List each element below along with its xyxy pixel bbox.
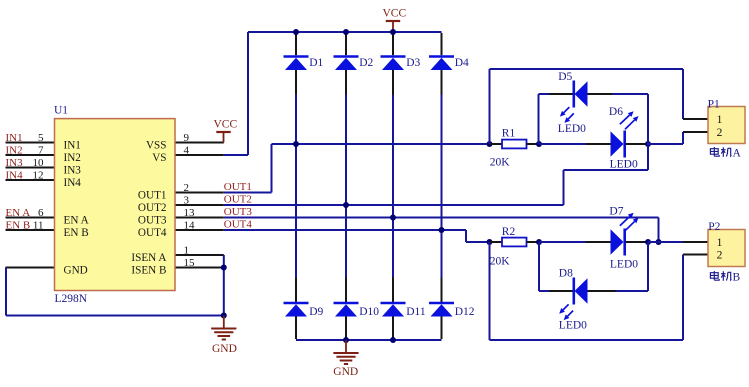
svg-text:D6: D6 <box>609 106 623 118</box>
svg-text:GND: GND <box>333 366 358 378</box>
svg-text:IN3: IN3 <box>64 165 82 177</box>
svg-text:IN1: IN1 <box>6 132 23 144</box>
svg-text:IN4: IN4 <box>64 177 82 189</box>
svg-text:LED0: LED0 <box>610 159 638 171</box>
svg-text:U1: U1 <box>54 105 68 117</box>
svg-text:11: 11 <box>33 219 44 231</box>
svg-text:IN4: IN4 <box>6 170 24 182</box>
svg-text:IN3: IN3 <box>6 157 24 169</box>
svg-text:EN A: EN A <box>64 215 89 227</box>
svg-text:EN B: EN B <box>6 220 31 232</box>
svg-text:D4: D4 <box>455 57 469 69</box>
svg-text:OUT3: OUT3 <box>224 206 253 218</box>
svg-text:IN2: IN2 <box>64 152 81 164</box>
svg-text:D10: D10 <box>359 306 379 318</box>
svg-text:2: 2 <box>184 182 190 194</box>
svg-text:A: A <box>733 148 742 160</box>
svg-text:9: 9 <box>184 132 190 144</box>
svg-text:ISEN A: ISEN A <box>131 252 166 264</box>
svg-text:R1: R1 <box>502 127 516 139</box>
svg-text:20K: 20K <box>490 255 511 267</box>
svg-text:D9: D9 <box>309 306 323 318</box>
svg-text:GND: GND <box>64 265 88 277</box>
svg-text:P1: P1 <box>708 99 720 111</box>
svg-text:10: 10 <box>33 157 45 169</box>
svg-text:OUT1: OUT1 <box>224 181 252 193</box>
svg-text:D12: D12 <box>455 306 475 318</box>
svg-text:2: 2 <box>717 250 723 262</box>
svg-text:ISEN B: ISEN B <box>131 265 166 277</box>
svg-text:OUT1: OUT1 <box>138 190 167 202</box>
svg-text:1: 1 <box>717 237 723 249</box>
svg-text:3: 3 <box>184 194 190 206</box>
svg-text:15: 15 <box>184 257 196 269</box>
svg-text:P2: P2 <box>708 221 720 233</box>
svg-text:D8: D8 <box>559 268 573 280</box>
svg-text:EN B: EN B <box>64 227 89 239</box>
svg-text:OUT4: OUT4 <box>138 227 167 239</box>
svg-text:VSS: VSS <box>146 140 167 152</box>
svg-text:1: 1 <box>717 114 723 126</box>
svg-text:VCC: VCC <box>214 118 238 130</box>
svg-text:LED0: LED0 <box>558 123 586 135</box>
svg-text:4: 4 <box>184 144 190 156</box>
svg-text:12: 12 <box>33 169 44 181</box>
svg-text:OUT2: OUT2 <box>138 202 167 214</box>
svg-text:IN2: IN2 <box>6 145 23 157</box>
svg-text:5: 5 <box>38 132 44 144</box>
svg-text:D1: D1 <box>309 57 323 69</box>
svg-text:14: 14 <box>184 219 196 231</box>
svg-text:R2: R2 <box>502 226 516 238</box>
svg-text:20K: 20K <box>490 156 511 168</box>
svg-text:GND: GND <box>212 343 237 355</box>
svg-text:7: 7 <box>38 144 44 156</box>
svg-text:LED0: LED0 <box>610 258 638 270</box>
svg-text:13: 13 <box>184 207 196 219</box>
svg-text:6: 6 <box>38 207 44 219</box>
svg-text:OUT2: OUT2 <box>224 194 252 206</box>
svg-text:OUT4: OUT4 <box>224 219 253 231</box>
svg-text:VCC: VCC <box>383 7 407 19</box>
svg-text:B: B <box>733 272 741 284</box>
svg-text:L298N: L298N <box>55 293 88 305</box>
svg-text:1: 1 <box>184 244 190 256</box>
svg-text:D7: D7 <box>609 206 623 218</box>
svg-text:VS: VS <box>152 152 166 164</box>
svg-text:OUT3: OUT3 <box>138 215 167 227</box>
svg-text:D3: D3 <box>406 57 420 69</box>
svg-text:D5: D5 <box>558 71 572 83</box>
svg-text:2: 2 <box>717 127 723 139</box>
svg-text:LED0: LED0 <box>559 320 587 332</box>
svg-text:D2: D2 <box>359 57 373 69</box>
svg-text:IN1: IN1 <box>64 140 81 152</box>
svg-text:EN A: EN A <box>6 207 31 219</box>
svg-text:D11: D11 <box>406 306 426 318</box>
